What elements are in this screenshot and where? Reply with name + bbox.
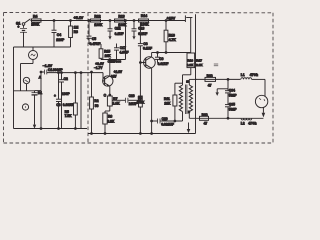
svg-text:130K: 130K (94, 23, 103, 27)
resistor R5 (65, 72, 78, 129)
resistor R12 (91, 15, 103, 27)
ground arrow left (33, 125, 36, 129)
svg-text:C4: C4 (57, 33, 61, 37)
capacitor C2 (59, 72, 71, 129)
resistor R19 (200, 113, 209, 126)
svg-text:C2: C2 (64, 77, 68, 81)
dashed border left (3, 13, 5, 144)
svg-text:+: + (54, 94, 56, 98)
supply tap top right (185, 15, 192, 52)
svg-text:R17: R17 (196, 58, 202, 62)
transformer T primary (179, 85, 182, 112)
wire signal to base (47, 73, 105, 81)
svg-text:0.2UF: 0.2UF (115, 32, 124, 36)
microphone M2 (22, 104, 28, 110)
svg-text:R18: R18 (207, 74, 213, 78)
svg-text:2.2K: 2.2K (107, 120, 115, 124)
svg-text:R12: R12 (94, 15, 100, 19)
capacitor C6 electrolytic (32, 91, 43, 125)
resistor R14 (139, 14, 150, 26)
resistor R8 (103, 113, 115, 134)
svg-text:130P: 130P (62, 92, 71, 96)
svg-text:332P: 332P (229, 93, 238, 97)
svg-text:R4: R4 (33, 15, 37, 19)
svg-text:C1: C1 (48, 68, 52, 72)
resistor R2 (90, 71, 99, 133)
svg-text:0.033U: 0.033U (63, 103, 74, 107)
capacitor C12 (108, 20, 124, 40)
capacitor C34 (225, 79, 237, 98)
resistor R11 (164, 83, 183, 122)
svg-text:C3: C3 (56, 103, 60, 107)
svg-text:220P: 220P (56, 38, 65, 42)
transistor V2 (140, 53, 156, 134)
wire output bottom row (189, 117, 263, 119)
svg-text:C12: C12 (115, 27, 121, 31)
node C (104, 94, 111, 98)
svg-text:R3: R3 (74, 30, 78, 34)
capacitor C4 (52, 20, 65, 47)
resistor R16b box (183, 53, 195, 86)
svg-text:C17: C17 (120, 46, 126, 50)
earphone BE (255, 79, 267, 117)
wire left ground rail (14, 128, 88, 130)
svg-text:R13: R13 (118, 15, 124, 19)
svg-text:4.0UF: 4.0UF (120, 51, 129, 55)
svg-text:C5: C5 (92, 37, 96, 41)
inductor L1 (241, 73, 265, 79)
wire vertical section divider line (195, 14, 197, 133)
transducer B1 (21, 47, 38, 91)
svg-text:470h: 470h (248, 122, 257, 126)
svg-text:R1: R1 (38, 91, 42, 95)
svg-text:150K: 150K (31, 22, 40, 26)
ground arrow middle (187, 123, 191, 134)
svg-text:10: 10 (186, 80, 190, 84)
svg-text:2.2K: 2.2K (196, 63, 203, 67)
svg-text:C13: C13 (138, 27, 144, 31)
capacitor C13 (132, 20, 148, 40)
battery GB (17, 25, 27, 47)
svg-text:R15: R15 (104, 49, 110, 53)
resistor R15 (99, 49, 111, 60)
wire horizontal node row (14, 46, 71, 48)
svg-text:56: 56 (95, 104, 99, 108)
svg-text:R16: R16 (187, 58, 193, 62)
node A (35, 71, 42, 128)
svg-text:~1.7V: ~1.7V (94, 66, 103, 70)
svg-text:C8: C8 (143, 42, 147, 46)
ground stub right (216, 89, 229, 96)
svg-text:0.2UF: 0.2UF (138, 32, 147, 36)
microphone M1 (23, 77, 29, 91)
svg-text:R2: R2 (94, 99, 98, 103)
svg-text:C16: C16 (129, 94, 135, 98)
transformer T secondary (186, 79, 196, 118)
dashed border bottom (4, 142, 274, 144)
svg-text:+: + (17, 25, 19, 29)
svg-text:C34: C34 (229, 89, 235, 93)
inductor L2 (241, 118, 257, 125)
svg-text:0.022UF: 0.022UF (161, 123, 174, 127)
capacitor C17 (114, 20, 128, 60)
wire left vertical (13, 47, 15, 129)
capacitor C10 (151, 117, 183, 127)
svg-text:C9: C9 (159, 57, 163, 61)
svg-text:C35: C35 (229, 103, 235, 107)
dashed border top (4, 12, 274, 14)
svg-text:470K: 470K (136, 100, 145, 104)
svg-text:47: 47 (204, 122, 208, 126)
resistor R4 (31, 15, 41, 27)
resistor R13 (115, 15, 127, 27)
resistor R9 (136, 96, 145, 134)
svg-text:R8: R8 (108, 115, 112, 119)
svg-text:0.1UF: 0.1UF (143, 47, 152, 51)
svg-text:R18: R18 (202, 113, 208, 117)
resistor R18 (205, 74, 216, 87)
dashed border right (272, 13, 274, 143)
mark equals (214, 64, 218, 66)
wire V2 collector row (152, 52, 191, 54)
svg-text:L2: L2 (241, 122, 245, 126)
svg-text:332P: 332P (229, 108, 238, 112)
wire primary bottom (182, 112, 184, 121)
svg-text:F: F (188, 110, 190, 114)
resistor R7 (105, 96, 120, 113)
resistor R17 labels (196, 58, 203, 67)
svg-text:0.01UF: 0.01UF (158, 62, 169, 66)
svg-text:+2V: +2V (111, 74, 118, 78)
wire mic row (14, 90, 35, 92)
svg-text:20K: 20K (105, 54, 112, 58)
wire output top row (196, 78, 241, 80)
svg-text:R14: R14 (141, 14, 147, 18)
transformer T core (185, 85, 187, 115)
svg-text:1.8K: 1.8K (113, 102, 121, 106)
resistor R16 load (164, 20, 176, 54)
svg-text:7.5K: 7.5K (65, 114, 73, 118)
switch S1 (16, 19, 31, 26)
svg-text:0.47UF: 0.47UF (90, 42, 101, 46)
svg-text:+15V: +15V (167, 17, 176, 21)
capacitor C1 (41, 68, 63, 74)
svg-text:2.2K: 2.2K (187, 63, 194, 67)
svg-text:C10: C10 (162, 117, 168, 121)
wire V1 collector node (101, 59, 126, 61)
capacitor C5 (87, 20, 102, 49)
wire middle ground rail (88, 133, 196, 135)
svg-text:22K: 22K (164, 102, 171, 106)
resistor R3 (69, 20, 79, 47)
dashed section divider (87, 13, 89, 144)
transistor V1 (103, 59, 113, 95)
svg-text:R16: R16 (169, 34, 175, 38)
svg-text:L1: L1 (241, 73, 245, 77)
wire top rail (31, 20, 186, 22)
capacitor C35 (225, 93, 237, 118)
svg-text:470h: 470h (250, 73, 259, 77)
svg-text:R11: R11 (164, 97, 170, 101)
background paper (0, 0, 279, 150)
capacitor C8 and resistor R9 branch (138, 22, 152, 96)
svg-text:47: 47 (208, 83, 212, 87)
svg-text:4.7K: 4.7K (169, 38, 177, 42)
svg-text:+2.8V: +2.8V (114, 70, 123, 74)
svg-text:+5.1V: +5.1V (74, 16, 84, 20)
capacitor C3 (54, 72, 82, 129)
capacitor C16 (112, 94, 140, 106)
capacitor C9 (155, 52, 168, 66)
